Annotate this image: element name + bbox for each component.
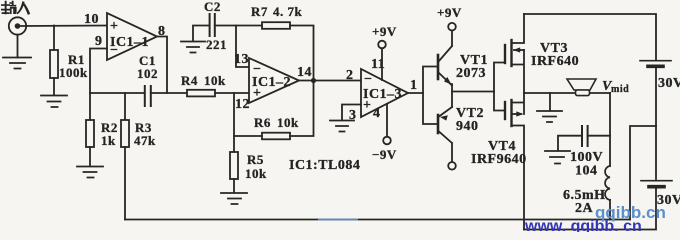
wire R2 to ground	[89, 147, 91, 166]
ground (R5)	[221, 193, 247, 204]
ground (pin3)	[330, 121, 354, 132]
svg-text:4. 7k: 4. 7k	[273, 4, 303, 19]
node Vmid label	[602, 79, 629, 95]
pin 10 label	[84, 12, 99, 27]
wire R6 right up to node B	[290, 81, 314, 137]
pin 1 label	[410, 78, 418, 93]
wire node B to pin2	[299, 80, 361, 82]
svg-text:1: 1	[410, 78, 418, 93]
wire input to pin10	[20, 25, 107, 28]
transistor Q2 VT2	[438, 106, 484, 162]
svg-text:+9V: +9V	[437, 5, 462, 20]
svg-text:100k: 100k	[59, 65, 88, 80]
resistor R6	[234, 115, 299, 139]
ground (R2)	[77, 167, 103, 178]
svg-text:+9V: +9V	[372, 24, 397, 39]
wire R3 down to feedback rail	[124, 147, 126, 220]
svg-text:2: 2	[346, 68, 354, 83]
terminal -9V (IC1-3 pin4)	[372, 137, 397, 162]
wire feedback rail	[125, 219, 630, 221]
pin 2 label	[346, 68, 354, 83]
wire C1 right to R4	[151, 92, 187, 94]
ground (output node)	[537, 93, 562, 122]
svg-text:30V: 30V	[658, 76, 680, 91]
terminal (VT2 collector, open)	[448, 162, 456, 170]
wire pin9	[90, 49, 107, 94]
svg-text:10k: 10k	[204, 73, 226, 88]
input label 输入	[1, 1, 30, 15]
battery B2 30V	[641, 181, 680, 208]
watermark www.qqibb.cn	[524, 218, 642, 235]
pin 9 label	[95, 34, 103, 49]
watermark remnant	[318, 219, 358, 221]
wire battery B2 bottom rail	[524, 189, 656, 230]
battery B1 30V	[640, 61, 680, 91]
wire output node	[524, 92, 610, 94]
watermark qqibb.cn	[595, 203, 666, 222]
wire R4 to pin12	[215, 92, 249, 94]
wire battery B2 top	[655, 126, 657, 179]
svg-text:13: 13	[234, 52, 249, 67]
svg-text:2073: 2073	[456, 66, 486, 81]
pin 4 label	[373, 106, 381, 121]
node A (R1 tap)	[53, 26, 55, 51]
resistor R5	[230, 152, 267, 181]
resistor R2	[86, 93, 118, 148]
svg-text:R6: R6	[254, 115, 271, 130]
svg-text:4: 4	[373, 106, 381, 121]
wire midpoint tap	[630, 126, 656, 220]
svg-text:102: 102	[137, 66, 158, 81]
wire R1 to ground	[53, 78, 55, 95]
svg-text:12: 12	[235, 97, 250, 112]
svg-text:47k: 47k	[134, 133, 156, 148]
ground (C2)	[181, 42, 205, 53]
capacitor C1	[137, 53, 158, 106]
svg-text:R4: R4	[181, 73, 198, 88]
pin 3 label	[349, 108, 357, 123]
terminal +9V (IC1-3 pin11)	[372, 24, 397, 48]
svg-text:IRF9640: IRF9640	[471, 152, 527, 167]
svg-text:104: 104	[575, 164, 598, 179]
MOSFET Q3 VT3	[505, 14, 579, 93]
wire L1 to rail	[609, 200, 611, 220]
resistor R1	[50, 50, 88, 80]
terminal +9V (VT1 collector)	[437, 5, 462, 31]
svg-text:IC1–1: IC1–1	[110, 35, 149, 50]
op-amp U1 IC1-1	[107, 13, 157, 60]
svg-text:IRF640: IRF640	[531, 54, 579, 69]
wire R5/R6 column	[233, 93, 235, 152]
svg-text:IC1–3: IC1–3	[363, 87, 402, 102]
wire battery B1 to midpoint	[655, 68, 657, 126]
wire connector to ground	[17, 35, 19, 58]
op-amp U1 IC1-2	[249, 58, 299, 103]
svg-text:mid: mid	[611, 84, 629, 95]
svg-text:221: 221	[206, 37, 227, 52]
wire base bus	[423, 67, 438, 125]
pin 8 label	[158, 24, 166, 39]
svg-text:940: 940	[456, 119, 479, 134]
capacitor C3 104/100V	[558, 126, 610, 179]
wire pin4	[386, 104, 388, 137]
svg-text:R7: R7	[251, 4, 268, 19]
wire C2 left to ground	[193, 26, 210, 42]
wire pin11	[381, 48, 383, 80]
label IC1 type	[289, 158, 360, 173]
svg-text:www. qqibb. cn: www. qqibb. cn	[524, 218, 642, 232]
svg-text:10: 10	[84, 12, 99, 27]
pin 14 label	[297, 65, 312, 80]
wire pin8 output	[157, 37, 167, 94]
svg-text:C2: C2	[204, 0, 221, 14]
svg-text:1k: 1k	[101, 133, 116, 148]
wire pin3 to ground	[342, 105, 361, 121]
svg-text:+: +	[110, 19, 118, 34]
svg-text:9: 9	[95, 34, 103, 49]
wire R5 to ground	[233, 179, 235, 193]
svg-text:−: −	[364, 72, 372, 87]
wire gate bus	[494, 63, 505, 111]
speaker BL	[567, 79, 596, 96]
svg-text:IC1–2: IC1–2	[252, 75, 291, 90]
capacitor C2	[204, 0, 227, 52]
wire R7 right down to node B	[290, 26, 314, 81]
svg-text:11: 11	[371, 57, 385, 72]
pin 11 label	[371, 57, 385, 72]
resistor R3	[121, 93, 156, 148]
connector J input	[9, 17, 26, 34]
ground (input)	[3, 58, 31, 69]
resistor R7	[251, 4, 303, 29]
pin 12 label	[235, 97, 250, 112]
svg-text:2A: 2A	[575, 201, 594, 216]
op-amp U1 IC1-3	[361, 69, 408, 117]
wire R7 left	[236, 25, 262, 27]
ground (R1)	[41, 96, 67, 108]
svg-text:R5: R5	[247, 152, 264, 167]
svg-text:10k: 10k	[277, 115, 299, 130]
transistor Q1 VT1	[438, 31, 488, 108]
wire main feedback node	[90, 92, 144, 94]
wire Vmid column	[609, 93, 611, 166]
MOSFET Q4 VT4	[471, 93, 527, 230]
resistor R4	[181, 73, 226, 96]
node B junction	[311, 78, 316, 83]
inductor L1 6.5mH	[563, 166, 610, 216]
wire C2 right / pin13 column	[215, 26, 249, 68]
svg-text:14: 14	[297, 65, 312, 80]
wire emitters to gate bus	[452, 91, 494, 93]
svg-text:IC1:TL084: IC1:TL084	[289, 158, 360, 173]
svg-text:−9V: −9V	[372, 147, 397, 162]
wire pin1 to base bus	[408, 92, 423, 94]
svg-text:10k: 10k	[245, 166, 267, 181]
pin 13 label	[234, 52, 249, 67]
wire top rail	[524, 14, 656, 60]
ground (C3)	[545, 151, 570, 164]
